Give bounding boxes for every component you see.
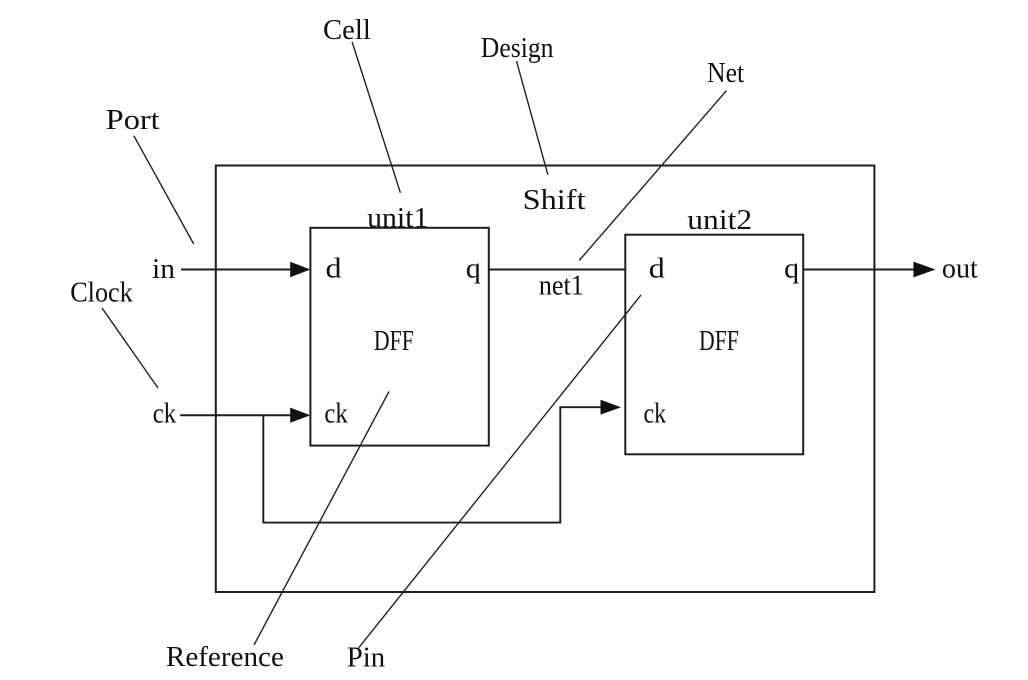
label line Port (134, 136, 194, 244)
svg-text:in: in (152, 253, 176, 285)
cell unit1 box (310, 228, 488, 446)
wire in to d of unit1 (181, 262, 310, 277)
svg-text:unit1: unit1 (367, 202, 428, 234)
svg-text:Cell: Cell (323, 14, 371, 46)
label line Reference (254, 392, 389, 646)
svg-text:ck: ck (153, 398, 177, 430)
svg-text:Pin: Pin (347, 641, 386, 673)
cell unit2 box (625, 235, 803, 455)
label line Cell (352, 42, 400, 193)
wire ck to ck of unit1 (180, 408, 310, 423)
svg-text:unit2: unit2 (687, 204, 752, 236)
wire net1 from q of unit1 to d of unit2 (489, 269, 626, 271)
svg-text:q: q (784, 252, 799, 284)
svg-text:Port: Port (106, 104, 160, 136)
svg-text:DFF: DFF (374, 325, 414, 357)
svg-text:Reference: Reference (166, 641, 284, 673)
label line Clock (102, 308, 158, 388)
svg-text:d: d (649, 252, 666, 284)
label line Net (579, 91, 726, 261)
wire clock branch to ck of unit2 (263, 400, 621, 523)
label line Pin (359, 295, 642, 648)
label line Design (517, 61, 548, 175)
svg-text:ck: ck (324, 398, 348, 430)
svg-text:net1: net1 (539, 270, 584, 302)
svg-text:d: d (326, 252, 343, 284)
svg-text:q: q (466, 252, 481, 284)
svg-text:DFF: DFF (699, 325, 739, 357)
wire q of unit2 to out (803, 262, 935, 278)
svg-text:ck: ck (644, 397, 667, 429)
svg-text:Shift: Shift (523, 184, 586, 216)
svg-text:out: out (942, 253, 978, 285)
svg-text:Net: Net (707, 57, 744, 89)
svg-text:Clock: Clock (70, 277, 133, 309)
design boundary box Shift (216, 166, 875, 593)
svg-text:Design: Design (481, 32, 554, 64)
